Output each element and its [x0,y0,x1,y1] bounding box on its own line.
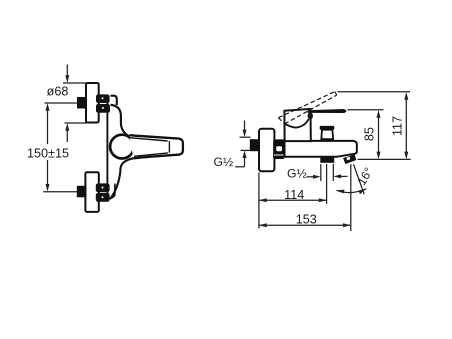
wall escutcheon (side) [259,129,274,172]
dimension o68 top arrow [66,65,68,77]
body left edge line [106,96,108,199]
svg-text:117: 117 [390,116,404,136]
diverter knob cap [320,126,335,130]
16 degree arc [337,189,367,193]
body bottom right outline inner [109,184,115,199]
shower hose outlet stub (bottom of body) [320,157,334,163]
top wall flange [86,83,99,123]
dimension 150+-15 extension line bottom (flange2 center) [43,191,77,193]
svg-text:G½: G½ [214,155,234,169]
svg-text:85: 85 [363,127,377,141]
svg-text:114: 114 [284,188,304,202]
body top right outline outer [111,105,133,138]
pivot joint [308,113,313,120]
16 degree angle leg [354,164,365,194]
dimension 150+-15 line with arrows [46,103,50,111]
mixer body (side) [285,141,357,157]
handle base (side) [284,109,310,141]
G1/2 dim arrows at wall stub [240,136,251,138]
dimension 153 [259,224,351,226]
lever raised position (dashed) [278,92,336,124]
lever tip inner line [168,141,170,153]
lever handle outline [130,135,183,158]
extension line lever top [348,109,384,111]
bottom wall flange [85,172,98,212]
extension line top of flange [63,82,87,84]
diverter knob feet [323,139,326,141]
svg-text:G½: G½ [287,167,307,181]
top wall pipe stub [77,97,87,109]
dimension 150+-15 extension line top (flange1 center) [45,102,79,104]
bottom union nut 1 [96,183,110,192]
extension line wall (left) [258,173,260,229]
spout aerator (tilted) [343,154,356,164]
body bottom right outline outer [110,158,134,199]
dimension o68 bottom arrow [65,122,88,124]
G1/2 leader line [235,166,244,168]
bottom wall pipe stub [77,186,87,198]
svg-text:ø68: ø68 [47,85,69,99]
body top right outline inner [111,96,117,105]
dimension 114 [259,199,327,201]
cartridge dome circle [110,135,134,159]
dimension 117 [404,92,408,100]
bottom union nut 2 [96,193,110,202]
dimension 85 [377,110,381,118]
extension line spout bottom [358,158,411,160]
svg-text:153: 153 [296,212,317,226]
diverter knob body [321,130,333,140]
top union nut 1 [96,94,110,103]
svg-text:150±15: 150±15 [27,146,69,160]
extension lines hose stub [320,164,322,181]
extension line raised lever tip [338,91,411,93]
union nut column (side) [273,139,284,159]
lever inner top line [130,138,168,141]
lever arm (side, solid) [308,109,347,113]
G1/2 arrows at hose stub [307,176,314,178]
top union nut 2 [96,104,110,113]
dome arc (side) [285,119,309,128]
extension line spout tip [350,164,352,231]
wall pipe stub (side) [250,139,259,151]
lever inner bottom line [134,153,168,156]
